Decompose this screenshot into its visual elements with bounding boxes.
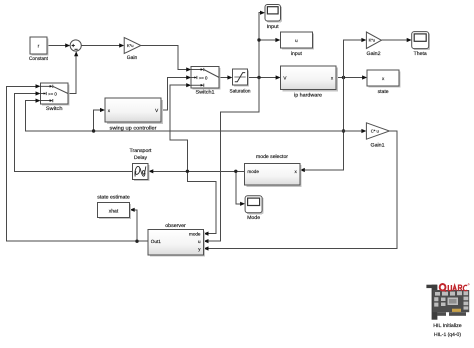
saturation block Saturation [230,69,251,94]
subsystem ip hardware [281,66,338,99]
state estimate block xhat [97,194,131,219]
svg-text:Gain2: Gain2 [367,51,381,57]
wire: mode net branch to observer mode input [187,171,216,235]
svg-text:Delay: Delay [134,155,147,161]
wire: mode net branch down to Mode scope [236,171,245,206]
svg-text:swing up controller: swing up controller [110,125,157,131]
wire: ip hardware x output to state block [336,75,367,79]
scope Mode [245,196,264,221]
wire: x net up to Gain2 [344,38,367,78]
gain Gain2 [366,32,381,57]
wire: Switch output up to Sum minus input [68,51,78,93]
svg-text:Constant: Constant [29,56,49,62]
wire: observer Out1 to Switch input1 [6,84,148,241]
scope Theta [412,32,431,57]
wire: x net down to mode selector x input [300,78,344,173]
wire: Constant to Sum [48,43,71,47]
subsystem mode selector [245,154,302,187]
gain Gain1 [366,123,389,149]
switch Switch1 [191,67,221,96]
node: junction Out1 line at xhat branch [135,240,138,243]
svg-text:Gain: Gain [127,55,138,61]
svg-text:Saturation: Saturation [230,88,251,94]
svg-text:observer: observer [165,223,186,229]
svg-text:mode selector: mode selector [256,154,288,160]
input measurement block input [280,32,314,57]
svg-text:Input: Input [267,24,280,30]
svg-text:state: state [378,89,389,95]
node: junction on saturation output [257,76,260,79]
svg-text:xhat: xhat [109,208,119,214]
wire: u feedback down to observer u input [204,78,260,244]
node: junction on x output [342,76,345,79]
svg-text:u: u [295,38,298,43]
svg-text:>= 0: >= 0 [199,75,208,80]
svg-text:Transport: Transport [130,148,153,154]
svg-text:Gain1: Gain1 [371,142,385,148]
subsystem observer [148,223,205,257]
wire: Saturation to ip hardware V input [248,75,281,79]
wire: mode selector output to Transport Delay input [148,169,244,173]
wire: Sum to Gain [81,43,124,47]
switch Switch [41,83,70,112]
node: junction x line at swing up branch [92,129,95,132]
subsystem swing up controller [105,98,163,131]
svg-text:ip hardware: ip hardware [294,93,322,99]
wire: Switch1 to Saturation [219,75,232,79]
node: junction mode net at Mode scope branch [234,170,237,173]
svg-text:mode: mode [189,232,201,237]
node: junction u net at input block branch [257,38,260,41]
wire: x line branch up to swing up controller input [94,108,105,131]
wire: Transport Delay output to Switch input2 [15,91,133,171]
wire: x net branch to Gain1 [344,129,367,133]
wire: Gain1 output down to observer y input [204,131,397,251]
wire: Out1 branch up to xhat block [130,208,137,242]
svg-text:K*u: K*u [369,38,375,43]
svg-text:>= 0: >= 0 [48,91,57,96]
state measurement block state [367,70,401,95]
wire: long x state line to Switch input3 [25,99,343,132]
wire: Gain2 to Theta scope [382,38,412,42]
svg-text:HIL-1 (q4-0): HIL-1 (q4-0) [434,332,461,338]
svg-text:K*u: K*u [127,43,133,48]
svg-text:input: input [291,51,303,57]
svg-text:u: u [198,239,201,244]
HIL Initialize card icon with QUARC logo [426,284,469,338]
svg-text:Out1: Out1 [151,239,161,244]
svg-text:Theta: Theta [414,51,427,57]
wire: mode net branch up to Switch1 input3 [170,83,191,171]
gain Gain [124,38,141,62]
wire: Gain to Switch1 input1 [141,46,191,72]
transport delay block [130,148,153,181]
wire: u net branch to input block [259,38,280,42]
svg-text:state estimate: state estimate [97,194,130,200]
svg-text:C* u: C* u [371,129,380,134]
svg-text:HIL Initialize: HIL Initialize [433,323,462,329]
wire: u net up to Input scope [259,11,265,78]
svg-text:Mode: Mode [247,215,260,221]
svg-text:Switch1: Switch1 [196,89,215,95]
svg-text:mode: mode [247,169,259,174]
node: junction mode net at observer branch [186,170,189,173]
constant block Constant [29,37,49,62]
svg-text:Switch: Switch [46,106,63,112]
sum junction [70,40,81,51]
wire: swing up controller V output to Switch1 input2 [161,75,191,110]
scope Input [265,5,282,31]
node: junction x net at long line [342,129,345,132]
